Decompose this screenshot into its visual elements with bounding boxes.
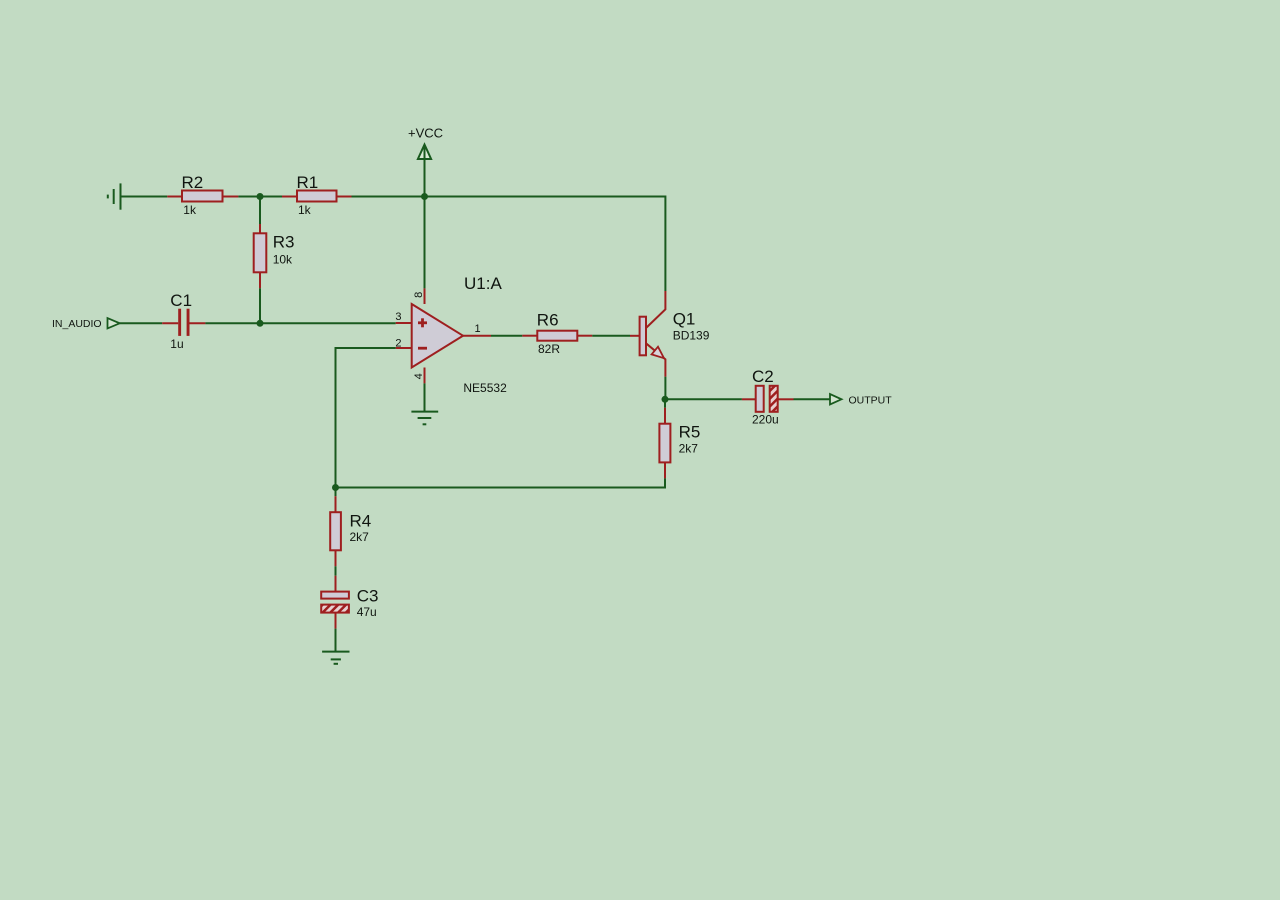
wire R3 to node B — [259, 288, 261, 323]
ground GND-C3 — [322, 652, 349, 664]
wire R6 to Q1 base — [592, 335, 630, 337]
node VCC junction — [421, 193, 428, 200]
svg-text:R1: R1 — [297, 173, 319, 192]
node A junction — [257, 193, 264, 200]
resistor R1 — [282, 191, 352, 202]
op-amp U1 — [396, 288, 491, 383]
transistor Q1 — [630, 291, 665, 377]
svg-text:8: 8 — [413, 292, 425, 298]
svg-text:R2: R2 — [182, 173, 204, 192]
svg-text:2: 2 — [395, 337, 401, 349]
svg-text:R5: R5 — [679, 423, 701, 442]
svg-text:1k: 1k — [298, 203, 312, 217]
port IN_AUDIO arrow — [108, 318, 120, 328]
wire node D to C2 — [665, 398, 742, 400]
wire ground to R2 — [121, 196, 168, 198]
svg-text:2k7: 2k7 — [350, 530, 370, 544]
svg-text:1k: 1k — [183, 203, 197, 217]
svg-text:+VCC: +VCC — [408, 126, 443, 141]
svg-text:C2: C2 — [752, 367, 774, 386]
svg-text:82R: 82R — [538, 342, 560, 356]
svg-text:47u: 47u — [357, 605, 377, 619]
svg-text:U1:A: U1:A — [464, 274, 502, 293]
wire op-amp pin 2 feedback to node C — [336, 348, 396, 488]
svg-text:10k: 10k — [273, 253, 293, 267]
wire R2 to node A to R1 — [238, 196, 282, 198]
ground GND-opamp — [411, 412, 438, 425]
svg-text:2k7: 2k7 — [679, 442, 699, 456]
resistor R4 — [330, 496, 341, 566]
wire R5 bottom to node C — [336, 478, 666, 487]
wire node D down to R5 — [664, 399, 666, 407]
svg-text:C1: C1 — [170, 291, 192, 310]
svg-text:BD139: BD139 — [673, 329, 710, 343]
svg-text:4: 4 — [413, 373, 425, 379]
svg-text:1: 1 — [475, 323, 481, 335]
svg-text:Q1: Q1 — [673, 310, 696, 329]
wire node A down to R3 — [259, 197, 261, 225]
wire op-amp output to R6 — [491, 335, 522, 337]
wire C3 to ground — [335, 629, 337, 652]
svg-text:NE5532: NE5532 — [463, 381, 507, 395]
wire op-amp pin 4 to ground — [424, 383, 426, 411]
svg-text:220u: 220u — [752, 413, 779, 427]
capacitor C3 — [321, 576, 349, 629]
resistor R6 — [522, 331, 592, 341]
svg-text:3: 3 — [395, 311, 401, 323]
resistor R5 — [659, 408, 670, 479]
wire VCC node down to op-amp pin 8 — [424, 197, 426, 289]
resistor R2 — [167, 191, 238, 202]
ground GND-left — [108, 183, 121, 209]
wire C2 to OUTPUT port — [794, 398, 831, 400]
wire Q1 emitter to node D — [664, 377, 666, 400]
capacitor C2 — [742, 386, 794, 412]
wire C1 to node B to op-amp pin 3 — [205, 322, 395, 324]
node C junction — [332, 484, 339, 491]
svg-text:1u: 1u — [170, 337, 183, 351]
svg-text:R4: R4 — [350, 512, 372, 531]
svg-text:R3: R3 — [273, 233, 295, 252]
wire R4 to C3 — [335, 566, 337, 575]
wire IN arrow to C1 — [120, 322, 163, 324]
power +VCC — [418, 145, 431, 197]
svg-text:OUTPUT: OUTPUT — [849, 395, 893, 407]
capacitor C1 — [162, 309, 205, 336]
svg-text:R6: R6 — [537, 311, 559, 330]
svg-text:C3: C3 — [357, 587, 379, 606]
wire R1 to top-right corner to Q1 collector — [352, 197, 666, 292]
resistor R3 — [254, 224, 267, 288]
node D junction — [662, 396, 669, 403]
wire node C down to R4 — [335, 488, 337, 497]
svg-text:IN_AUDIO: IN_AUDIO — [52, 318, 102, 330]
port OUTPUT arrow — [830, 394, 842, 405]
node B junction — [257, 320, 264, 327]
